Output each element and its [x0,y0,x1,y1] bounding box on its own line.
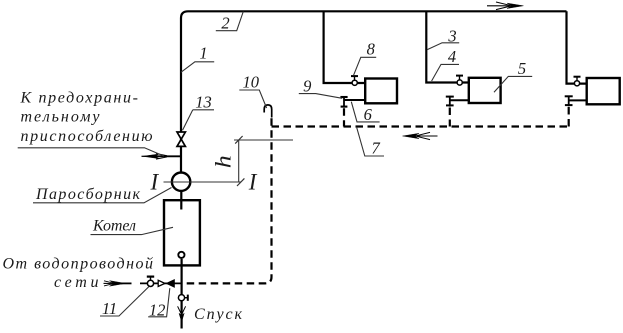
valve on radiator 2 feed [456,76,463,86]
radiator 3 [587,78,620,104]
svg-text:13: 13 [195,92,212,111]
callout 5 [494,59,532,92]
condensate dashed drop from fitting 2 [449,108,451,127]
pipe: right drop to radiator 3 [567,11,587,83]
callout 13 [183,92,215,130]
union fitting on radiator 3 outlet [565,96,573,107]
union fitting on radiator 2 outlet [446,96,454,107]
steam collector (Паросборник) drum [172,173,190,191]
svg-text:Котел: Котел [92,217,136,234]
pipe: water supply line [121,282,132,284]
callout 11 [100,287,149,319]
vent hook 10 [264,105,272,118]
flow arrow (condensate, to the left) under dashed line [403,132,438,139]
callout 7 [357,127,385,158]
boiler (Котел) [164,200,200,265]
callout 1 [181,44,214,73]
callout 12 [148,288,170,320]
water supply arrow (points right) [104,281,126,287]
svg-text:Спуск: Спуск [194,306,243,323]
svg-text:приспособлению: приспособлению [21,128,153,145]
radiator 1 [365,79,397,104]
callout 9 [299,76,342,98]
callout 4 [432,47,459,81]
dimension h vertical line [238,140,240,182]
pipe: radiator 1 outlet [344,99,365,101]
valve 11 (cock with T handle) [147,277,154,287]
svg-text:2: 2 [221,14,229,33]
svg-text:9: 9 [303,76,311,95]
check valve 12 [158,280,174,288]
drain flow arrowhead (Спуск, points down) [179,313,184,322]
radiator 2 [469,78,501,103]
pipe: radiator 3 outlet [569,99,587,101]
boiler outlet circle [178,252,184,258]
svg-text:10: 10 [243,72,260,91]
svg-text:I: I [150,170,160,195]
svg-text:6: 6 [364,105,373,124]
svg-text:11: 11 [102,299,117,318]
callout 8 [354,40,377,76]
svg-text:I: I [248,170,258,195]
section line I - I through collector [164,181,241,183]
svg-text:сети: сети [54,274,99,291]
section tick right [237,178,244,186]
svg-text:7: 7 [371,139,380,158]
callout 3 [427,27,459,50]
svg-text:h: h [210,155,235,168]
pipe/arrow to safety device (points left) [142,153,182,159]
pipe: riser 2 drop [426,11,469,82]
svg-text:8: 8 [367,40,376,59]
svg-text:4: 4 [448,47,456,66]
svg-text:5: 5 [518,59,526,78]
svg-text:тельному: тельному [21,109,101,126]
callout 6 [351,102,379,124]
condensate dashed drop from fitting 3 [568,107,570,127]
svg-text:Паросборник: Паросборник [35,186,141,203]
callout 2 [216,12,244,33]
valve 13 (gate valve on riser) [177,132,185,146]
valve on radiator 3 feed [574,77,581,86]
valve 8 on radiator 1 feed [351,76,358,85]
flow arrow (steam, to the right) above header [487,2,524,10]
pipe: collector stub inside boiler [180,200,182,210]
pipe: collector to boiler [180,192,182,210]
dimension extension line [234,139,293,141]
drain valve below junction [178,295,187,301]
pipe: main steam riser with top header [181,11,567,173]
svg-text:От водопроводной: От водопроводной [3,256,154,273]
label: К предохранительному приспособлению [20,89,153,145]
svg-text:1: 1 [199,44,207,63]
pipe: riser 1 drop [324,11,366,83]
svg-text:К предохрани-: К предохрани- [20,89,139,106]
pipe: boiler drain down [181,259,183,329]
pipe: radiator 2 outlet [450,99,469,101]
condensate vertical dashed line [184,118,272,283]
dimension tick top [235,136,242,144]
condensate main dashed line [272,125,569,127]
callout 10 [239,72,266,108]
union fitting 9 on radiator 1 outlet [340,96,347,108]
condensate dashed drop from fitting 1 [343,108,345,126]
